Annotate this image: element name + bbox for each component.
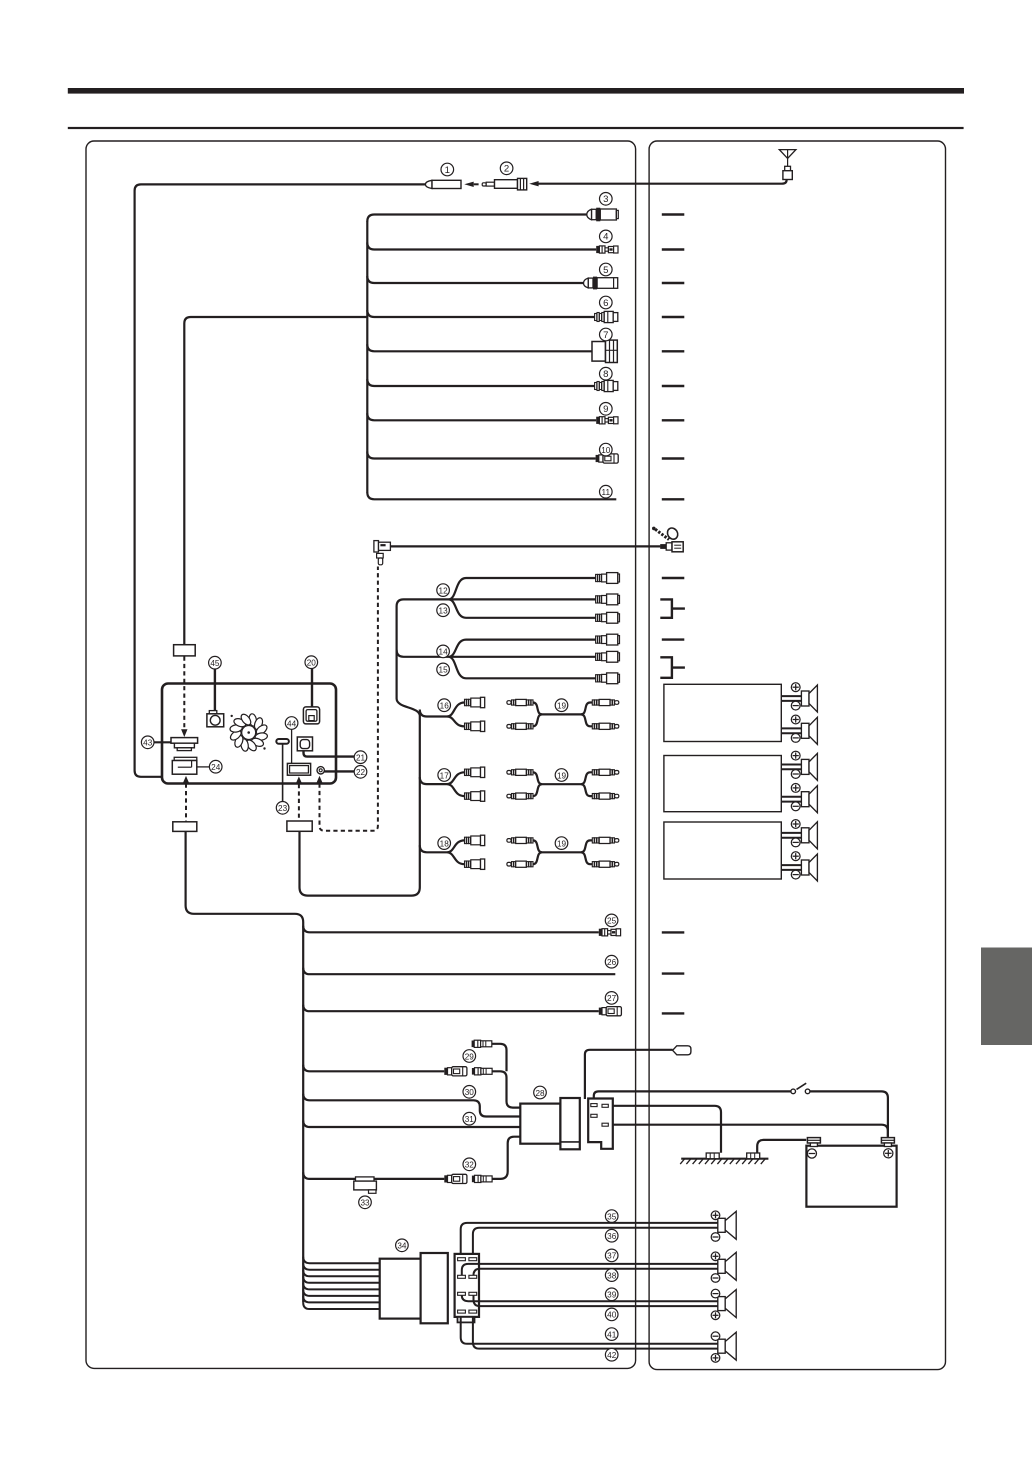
vehicle speaker connector bbox=[455, 1254, 479, 1317]
label 41 bbox=[605, 1328, 618, 1341]
connector 32 male bbox=[472, 1175, 492, 1182]
wire 7 bbox=[367, 344, 592, 351]
label 38 bbox=[605, 1269, 618, 1282]
wire 27 bbox=[303, 1005, 599, 1012]
text dash row 6 bbox=[662, 316, 685, 318]
connector 6 bbox=[595, 311, 618, 322]
svg-text:38: 38 bbox=[607, 1271, 617, 1280]
connector 28 head bbox=[560, 1098, 579, 1149]
wire 40 bbox=[474, 1295, 718, 1306]
svg-text:10: 10 bbox=[601, 446, 611, 455]
svg-text:30: 30 bbox=[465, 1088, 475, 1097]
harness spine (rows 3-11) bbox=[366, 221, 368, 493]
label 14 bbox=[437, 645, 450, 658]
text dash row 27 bbox=[662, 1012, 685, 1014]
svg-text:5: 5 bbox=[603, 265, 608, 276]
speaker connector pin 1 bbox=[458, 1258, 466, 1261]
connector 17 pair bbox=[465, 767, 485, 801]
battery minus sign bbox=[807, 1149, 816, 1158]
svg-text:40: 40 bbox=[607, 1311, 617, 1320]
chassis ground bbox=[680, 1159, 768, 1164]
svg-text:26: 26 bbox=[607, 958, 617, 967]
rear speaker 4 bbox=[711, 1332, 736, 1362]
text dash row 7 bbox=[662, 350, 685, 352]
ground lug b bbox=[747, 1153, 760, 1159]
dashed lead into 43 bbox=[183, 657, 185, 729]
label 31 bbox=[463, 1112, 476, 1125]
wire 39 bbox=[462, 1295, 718, 1301]
label 11 bbox=[600, 485, 613, 498]
label 3 bbox=[600, 193, 613, 206]
antenna symbol bbox=[779, 150, 796, 167]
wire 31 bbox=[303, 1121, 520, 1128]
speaker connector boot bbox=[458, 1317, 475, 1323]
text dash row 9 bbox=[662, 419, 685, 421]
svg-text:18: 18 bbox=[440, 839, 450, 848]
label 29 bbox=[463, 1050, 476, 1063]
fuse holder 33 bbox=[354, 1177, 377, 1193]
svg-text:19: 19 bbox=[557, 839, 567, 848]
port 21 (AV) bbox=[297, 737, 312, 751]
wire 29 upper bbox=[492, 1044, 507, 1072]
label 36 bbox=[605, 1229, 618, 1242]
connector 9 bbox=[596, 417, 618, 424]
connector 32 female bbox=[444, 1174, 467, 1183]
label 23 bbox=[276, 802, 289, 815]
label 7 bbox=[600, 328, 613, 341]
text dash row 25 bbox=[662, 931, 685, 933]
text dash row 8 bbox=[662, 385, 685, 387]
label 21 bbox=[354, 751, 367, 764]
head unit rear panel bbox=[162, 684, 336, 784]
connector 7 bbox=[592, 340, 617, 362]
label 30 bbox=[463, 1086, 476, 1099]
wire 4 bbox=[367, 243, 596, 250]
RCA plug row bbox=[596, 651, 620, 662]
svg-text:39: 39 bbox=[607, 1291, 617, 1300]
label 25 bbox=[605, 914, 618, 927]
ignition lead to battery bbox=[810, 1091, 888, 1137]
rear speaker 3 bbox=[711, 1289, 736, 1319]
ground lug a bbox=[706, 1153, 719, 1159]
amp speaker 3 bbox=[781, 751, 817, 780]
wire from spine to rear connector 43 bbox=[184, 317, 367, 645]
gray page tab bbox=[981, 948, 1032, 1046]
label 24 lead bbox=[197, 766, 210, 768]
RCA extension cable 19 (18) bbox=[507, 837, 619, 867]
label 5 bbox=[600, 263, 613, 276]
speaker connector pin 8 bbox=[469, 1310, 477, 1313]
svg-text:9: 9 bbox=[603, 404, 608, 415]
label 19 (17) bbox=[555, 769, 568, 782]
label 40 bbox=[605, 1308, 618, 1321]
connector 34 body bbox=[380, 1259, 421, 1319]
connector 28 body bbox=[520, 1104, 560, 1144]
svg-text:2: 2 bbox=[504, 164, 509, 175]
battery terminal negative bbox=[807, 1138, 820, 1147]
svg-text:33: 33 bbox=[360, 1199, 370, 1208]
antenna cable end box bbox=[174, 645, 196, 656]
wire 11 (bare lead) bbox=[367, 492, 616, 499]
label 45 stem bbox=[214, 669, 216, 711]
label 44 lead bbox=[291, 730, 293, 764]
fuse holder plug bbox=[673, 1046, 691, 1055]
wire 5 bbox=[367, 276, 584, 283]
RCA extension cable 19 (16) bbox=[507, 699, 619, 729]
amp speaker 4 bbox=[781, 784, 817, 813]
svg-text:16: 16 bbox=[440, 702, 450, 711]
harness fan-out wires bbox=[303, 1257, 380, 1309]
svg-text:19: 19 bbox=[557, 771, 567, 780]
screw top-left bbox=[231, 715, 233, 717]
label 32 bbox=[463, 1158, 476, 1171]
svg-text:24: 24 bbox=[211, 763, 221, 772]
remote display wire bbox=[390, 545, 660, 547]
amplifier box 1 bbox=[664, 684, 781, 741]
connector 16 pair bbox=[465, 697, 485, 731]
RCA plug row bbox=[596, 612, 620, 623]
svg-text:17: 17 bbox=[440, 771, 450, 780]
wire 18 branch bbox=[420, 840, 465, 864]
ignition switch bbox=[791, 1083, 810, 1094]
dash row 14 bbox=[662, 638, 685, 640]
remote plug (3.5mm right angle) bbox=[374, 541, 391, 565]
svg-text:43: 43 bbox=[143, 739, 153, 748]
cable box below 24 bbox=[173, 822, 197, 832]
amp speaker 2 bbox=[781, 715, 817, 744]
cooling fan bbox=[229, 713, 269, 753]
dashed lead into 24 bbox=[183, 776, 189, 783]
wire 9 bbox=[367, 413, 596, 420]
svg-text:37: 37 bbox=[607, 1252, 617, 1261]
wire 12/13 split bbox=[449, 578, 596, 618]
wire 35 bbox=[461, 1223, 718, 1254]
connector 24 (dock) bbox=[172, 757, 197, 774]
label 37 bbox=[605, 1249, 618, 1262]
label 28 bbox=[534, 1086, 547, 1099]
svg-text:6: 6 bbox=[603, 298, 608, 309]
connector 5 bbox=[584, 277, 618, 290]
connector 8 bbox=[595, 380, 618, 391]
label 1 bbox=[441, 163, 454, 176]
connector 18 pair bbox=[465, 835, 485, 869]
label 12 bbox=[437, 584, 450, 597]
svg-text:44: 44 bbox=[287, 719, 297, 728]
socket pin b bbox=[591, 1114, 597, 1117]
svg-text:35: 35 bbox=[607, 1212, 617, 1221]
label 35 bbox=[605, 1210, 618, 1223]
ignition lead bbox=[594, 1091, 791, 1099]
svg-text:32: 32 bbox=[465, 1161, 475, 1170]
wire 8 bbox=[367, 379, 594, 386]
label 8 bbox=[600, 367, 613, 380]
svg-text:41: 41 bbox=[607, 1330, 617, 1339]
svg-text:4: 4 bbox=[603, 232, 609, 243]
RCA plug row bbox=[596, 634, 620, 645]
wire 29 bbox=[303, 1065, 444, 1072]
rear speaker 2 bbox=[711, 1252, 736, 1282]
socket pin d bbox=[602, 1123, 608, 1126]
dashed lead into 44 bbox=[296, 776, 302, 783]
label 43 lead bbox=[154, 741, 171, 743]
label 45 bbox=[209, 656, 222, 669]
bracket rows 12/13 bbox=[660, 599, 685, 617]
RCA plug row bbox=[596, 673, 620, 684]
wire 41 bbox=[461, 1317, 718, 1344]
wire 6 bbox=[367, 310, 594, 317]
svg-text:19: 19 bbox=[557, 702, 567, 711]
label 4 bbox=[600, 230, 613, 243]
bracket rows 14/15 bbox=[660, 657, 685, 678]
antenna socket 1 bbox=[425, 180, 461, 188]
port 20 (optical) bbox=[303, 707, 319, 724]
wire 16 branch bbox=[420, 703, 465, 727]
battery bbox=[806, 1146, 896, 1207]
antenna lead wire bbox=[538, 180, 787, 184]
battery lead (fused) bbox=[585, 1050, 673, 1099]
top thin rule bbox=[68, 127, 964, 129]
screw bottom-right bbox=[263, 747, 265, 749]
wire 29 to relay box bbox=[492, 1071, 520, 1107]
amplifier box 2 bbox=[664, 756, 781, 812]
label 44 bbox=[285, 717, 298, 730]
label 17 bbox=[438, 769, 451, 782]
svg-text:23: 23 bbox=[278, 804, 288, 813]
svg-text:29: 29 bbox=[465, 1052, 475, 1061]
USB port 44 bbox=[287, 763, 310, 775]
svg-text:7: 7 bbox=[603, 330, 608, 341]
socket pin c bbox=[602, 1104, 608, 1107]
text dash row 4 bbox=[662, 248, 685, 250]
label 20 bbox=[305, 656, 318, 669]
wire 30 bbox=[303, 1094, 520, 1117]
svg-text:15: 15 bbox=[439, 666, 449, 675]
right frame bbox=[649, 141, 945, 1370]
label 6 bbox=[600, 296, 613, 309]
label 42 bbox=[605, 1348, 618, 1361]
svg-text:36: 36 bbox=[607, 1232, 617, 1241]
battery direct lead bbox=[613, 1125, 888, 1137]
rear speaker 1 bbox=[711, 1211, 736, 1241]
wire 42 bbox=[473, 1317, 718, 1349]
label 9 bbox=[600, 403, 613, 416]
wire 36 bbox=[473, 1228, 718, 1254]
RCA trunk spine bbox=[300, 599, 449, 895]
speaker connector pin 5 bbox=[458, 1292, 466, 1295]
label 24 bbox=[209, 760, 222, 773]
connector 29 male bbox=[472, 1068, 492, 1075]
battery plus sign bbox=[884, 1149, 893, 1158]
svg-text:25: 25 bbox=[607, 917, 617, 926]
port 22 (camera jack) bbox=[317, 767, 324, 774]
svg-text:8: 8 bbox=[603, 369, 608, 380]
connector 4 bbox=[596, 246, 618, 253]
connector 29 female bbox=[444, 1067, 467, 1076]
label 18 bbox=[438, 837, 451, 850]
svg-text:45: 45 bbox=[210, 659, 220, 668]
speaker connector pin 2 bbox=[469, 1258, 477, 1261]
wire 26 (bare) bbox=[303, 968, 615, 975]
speaker connector pin 6 bbox=[469, 1292, 477, 1295]
svg-text:14: 14 bbox=[439, 648, 449, 657]
wire 25 bbox=[303, 926, 599, 933]
label 19 (16) bbox=[555, 699, 568, 712]
label 34 bbox=[396, 1239, 409, 1252]
top thick rule bbox=[68, 88, 964, 94]
connector 43 (tuner) bbox=[171, 738, 198, 751]
connector 25 bbox=[599, 929, 621, 936]
svg-text:22: 22 bbox=[356, 768, 366, 777]
RCA extension cable 19 (17) bbox=[507, 769, 619, 799]
connector 3 bbox=[587, 208, 619, 222]
label 15 bbox=[437, 663, 450, 676]
left frame bbox=[86, 141, 636, 1368]
amp speaker 6 bbox=[781, 852, 817, 881]
svg-text:3: 3 bbox=[603, 194, 608, 205]
amplifier box 3 bbox=[664, 822, 781, 879]
text dash row 5 bbox=[662, 282, 685, 284]
svg-text:13: 13 bbox=[439, 607, 449, 616]
battery terminal positive bbox=[881, 1138, 894, 1147]
text dash row 11 bbox=[662, 498, 685, 500]
label 43 bbox=[141, 736, 154, 749]
wire 32 to relay box bbox=[492, 1137, 520, 1179]
connector 29 upper pair bbox=[472, 1040, 492, 1047]
svg-text:27: 27 bbox=[607, 994, 617, 1003]
amp speaker 1 bbox=[781, 683, 817, 712]
label 16 bbox=[438, 699, 451, 712]
wire 10 bbox=[367, 452, 595, 459]
label 26 bbox=[605, 955, 618, 968]
display-side connector with clip bbox=[652, 526, 683, 552]
label 21 lead bbox=[304, 751, 355, 757]
connector 10 bbox=[596, 454, 619, 463]
wire from socket 1 to head unit bbox=[135, 184, 426, 776]
label 22 lead bbox=[324, 770, 354, 772]
label 39 bbox=[605, 1288, 618, 1301]
speaker connector pin 7 bbox=[458, 1310, 466, 1313]
label 10 bbox=[600, 443, 613, 456]
arrow into socket 1 bbox=[464, 182, 478, 187]
wire 38 bbox=[474, 1269, 718, 1276]
dash row 12 bbox=[662, 577, 685, 579]
svg-text:20: 20 bbox=[307, 659, 317, 668]
vehicle socket 28 bbox=[588, 1099, 613, 1149]
wire 17 branch bbox=[420, 772, 465, 796]
cable box below 44 bbox=[287, 821, 312, 831]
svg-text:1: 1 bbox=[445, 165, 450, 176]
wire 14/15 branch bbox=[397, 640, 596, 679]
dashed camera extension bbox=[316, 776, 322, 783]
power harness trunk bbox=[186, 831, 304, 1302]
text dash row 26 bbox=[662, 972, 685, 974]
connector 34 head bbox=[421, 1253, 448, 1323]
label 13 bbox=[437, 604, 450, 617]
label 22 bbox=[354, 766, 367, 779]
svg-text:42: 42 bbox=[607, 1351, 617, 1360]
plug 2 (3.5mm antenna adapter) bbox=[482, 178, 527, 190]
battery ground strap bbox=[757, 1140, 806, 1153]
RCA plug row 13 bbox=[596, 594, 620, 605]
antenna plug bbox=[783, 166, 792, 179]
connector 27 bbox=[599, 1007, 622, 1016]
label 33 bbox=[359, 1196, 372, 1209]
label 27 bbox=[605, 992, 618, 1005]
speaker connector pin 3 bbox=[458, 1275, 466, 1278]
camera input icon bbox=[207, 711, 224, 727]
speaker connector pin 4 bbox=[469, 1275, 477, 1278]
svg-text:21: 21 bbox=[356, 754, 366, 763]
svg-text:31: 31 bbox=[465, 1115, 475, 1124]
svg-text:11: 11 bbox=[602, 488, 611, 497]
socket pin a bbox=[591, 1104, 597, 1107]
label 20 stem bbox=[311, 669, 313, 708]
RCA plug row 12 bbox=[596, 573, 620, 584]
arrow into plug 2 bbox=[529, 181, 538, 186]
label 2 bbox=[500, 162, 513, 175]
text dash row 10 bbox=[662, 457, 685, 459]
ground lead bbox=[613, 1106, 721, 1153]
label 23 lead bbox=[282, 744, 284, 801]
wire 32 bbox=[303, 1172, 444, 1179]
amp speaker 5 bbox=[781, 820, 817, 849]
port 44 pill bbox=[276, 739, 289, 744]
svg-text:34: 34 bbox=[397, 1242, 407, 1251]
svg-text:28: 28 bbox=[535, 1089, 545, 1098]
svg-text:12: 12 bbox=[439, 586, 449, 595]
label 19 (18) bbox=[555, 837, 568, 850]
wire 37 bbox=[462, 1264, 718, 1275]
wire 3 bbox=[367, 215, 587, 222]
text dash row 3 bbox=[662, 213, 685, 215]
